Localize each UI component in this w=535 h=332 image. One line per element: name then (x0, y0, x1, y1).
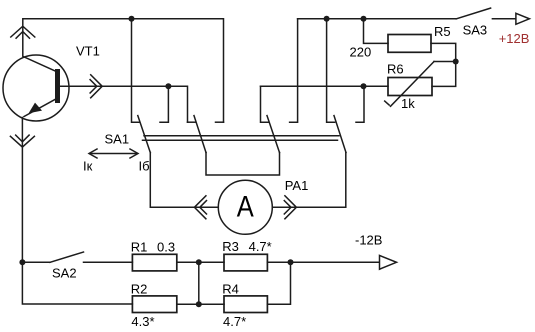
terminal arrow -12V (380, 255, 397, 269)
svg-text:0.3: 0.3 (157, 240, 175, 255)
junction dot: top rail / pair1 left drop (129, 16, 135, 22)
SA1 gang bar (double line) (144, 135, 339, 137)
svg-text:А: А (237, 191, 254, 224)
wire: top-right rail from pair3 right contact to SA3 (298, 18, 457, 20)
junction dot: R1/R3 node (196, 259, 202, 265)
wire: R2 to R4 (177, 303, 224, 305)
terminal arrow +12V (516, 13, 530, 24)
wire: arm1 down to ammeter left (150, 153, 218, 208)
wire: R5 left drop from rail (364, 19, 389, 44)
wire: base wire to SA1 pair2 left contact (60, 86, 188, 122)
switch SA2 (22, 252, 132, 262)
SA1 selector arrow (double headed) (89, 149, 138, 158)
junction dot: base wire / pair1 right drop (165, 83, 171, 89)
resistor R3 (224, 254, 267, 271)
switch SA1 pair3 left contact (261, 86, 269, 122)
wire: arm2 U-link to arm3 (206, 153, 280, 176)
svg-text:220: 220 (350, 45, 372, 60)
svg-text:R2: R2 (131, 282, 148, 297)
meter left arrow (double chevron left) (194, 196, 206, 219)
svg-text:SA1: SA1 (105, 132, 130, 147)
switch SA3 (456, 8, 516, 19)
junction dot: R2/R4 node (196, 301, 202, 307)
resistor R4 (224, 296, 267, 313)
switch SA1 arm 4 (334, 116, 346, 153)
resistor R2 (132, 296, 176, 313)
wire: R4 up to output node (267, 262, 290, 304)
wire: vertical tie R1R3 node to R2R4 node (198, 262, 200, 304)
resistor R1 (132, 254, 176, 271)
transistor VT1 (3, 55, 69, 121)
rheostat R6 (385, 62, 456, 107)
svg-text:R4: R4 (222, 282, 239, 297)
svg-text:VT1: VT1 (76, 44, 100, 59)
junction dot: rail / R5 drop (361, 16, 367, 22)
svg-text:R5: R5 (434, 24, 451, 39)
junction dot: R5/R6 wiper node (453, 59, 459, 65)
wire: top-left rail from collector to SA1 pair2 right contact (23, 19, 224, 122)
svg-text:1k: 1k (401, 96, 415, 111)
switch SA1 pair3 right contact (290, 19, 298, 122)
wire: R3 to -12V terminal (267, 261, 380, 263)
wire: arm4 down to ammeter right (272, 153, 346, 208)
switch SA1 pair2 left contact foot (188, 121, 196, 123)
switch SA1 pair4 right contact (356, 86, 364, 122)
svg-text:Iк: Iк (83, 159, 93, 174)
svg-text:R1: R1 (131, 240, 148, 255)
svg-text:4.7*: 4.7* (223, 314, 246, 329)
wire: R1 to R3 (177, 261, 224, 263)
wire: emitter lead down to bottom-left corner (22, 118, 132, 305)
svg-text:R3: R3 (222, 239, 239, 254)
switch SA1 arm 3 (267, 116, 280, 153)
wire: R5 right down to R6 right (431, 43, 456, 86)
svg-text:SA3: SA3 (463, 23, 488, 38)
switch SA1 pair2 right contact foot (216, 121, 224, 123)
svg-text:Iб: Iб (139, 159, 150, 174)
junction dot: mid wire / pair4 right drop (361, 83, 367, 89)
svg-text:4.7*: 4.7* (249, 239, 272, 254)
base current arrow (double chevron right) (90, 75, 102, 98)
junction dot: R3/R4 output node (288, 259, 294, 265)
switch SA1 pair1 right contact (160, 86, 168, 122)
meter right arrow (double chevron right) (284, 196, 296, 219)
switch SA1 arm 1 (138, 116, 151, 153)
junction dot: rail / pair4 left drop (324, 16, 330, 22)
svg-text:PA1: PA1 (285, 178, 309, 193)
switch SA1 pair1 left contact (132, 19, 140, 122)
switch SA1 pair4 left contact (327, 19, 335, 122)
emitter current arrow (double chevron down) (10, 135, 34, 147)
svg-text:R6: R6 (387, 62, 404, 77)
resistor R5 (388, 35, 431, 53)
switch SA1 arm 2 (194, 116, 206, 153)
collector current arrow (double chevron up) (11, 26, 35, 38)
svg-text:4.3*: 4.3* (131, 314, 154, 329)
junction dot: emitter / SA2 tap (19, 259, 25, 265)
svg-text:+12В: +12В (499, 31, 530, 46)
svg-text:SA2: SA2 (52, 266, 77, 281)
ammeter PA1 (218, 180, 272, 234)
svg-text:-12В: -12В (355, 233, 382, 248)
wire: mid wire pair3 left to R6 left (261, 85, 389, 87)
